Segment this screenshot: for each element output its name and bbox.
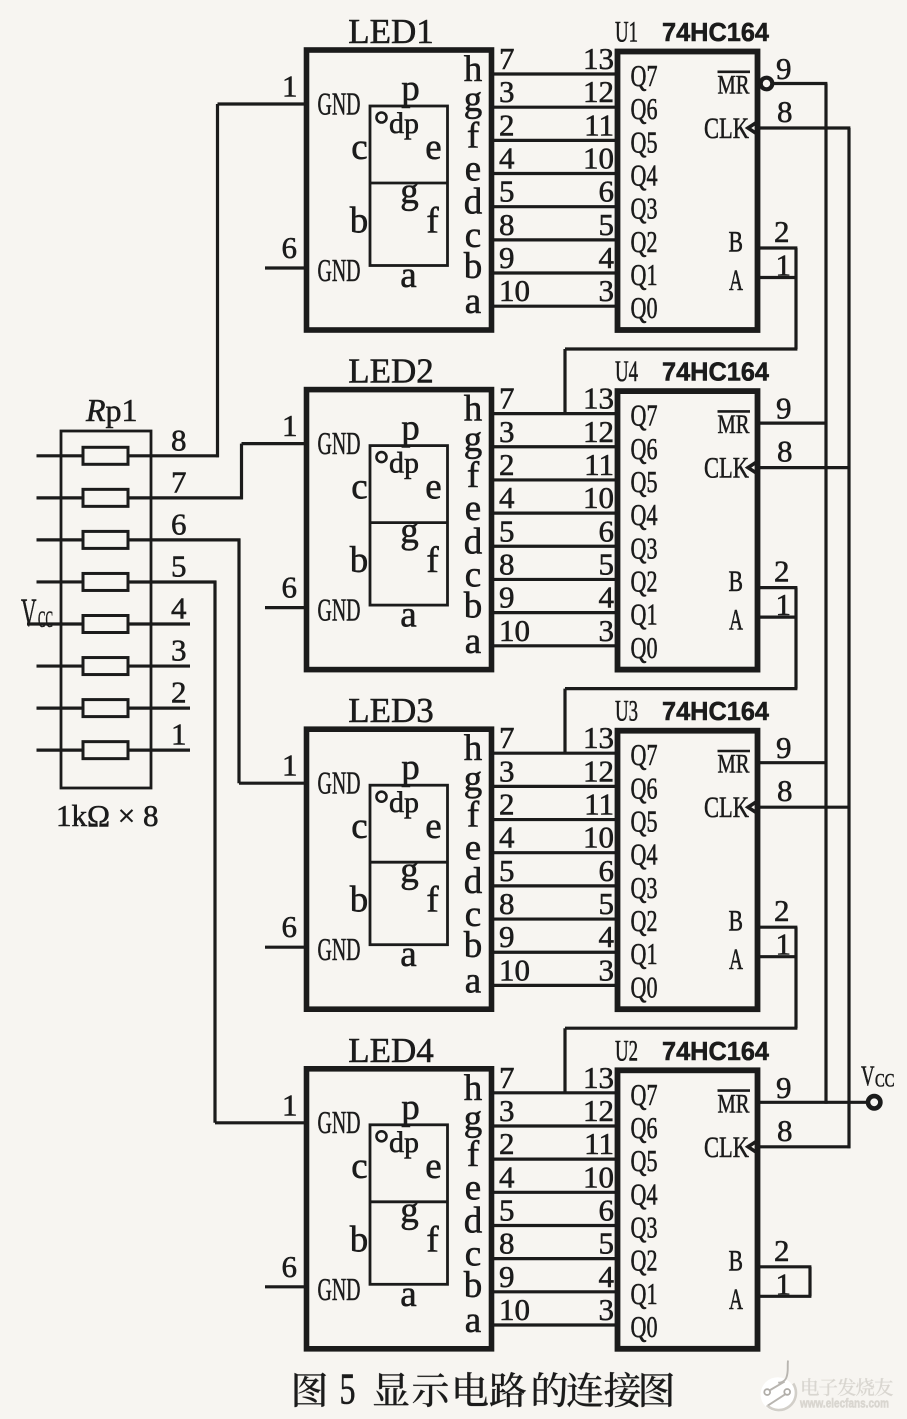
svg-text:g: g <box>400 171 419 212</box>
pin number 6 of LED3 <box>282 909 298 944</box>
svg-text:Q7: Q7 <box>631 398 658 433</box>
LED4 seven-segment glyph symbol <box>350 1087 448 1315</box>
svg-text:12: 12 <box>583 74 614 109</box>
U1 input labels B and A <box>729 227 744 298</box>
pin number 2 of U3 <box>774 893 790 928</box>
svg-text:MR: MR <box>718 1089 751 1118</box>
wire LED4 g (pin 3) to U2 Q6 (pin 12) <box>489 1093 620 1128</box>
svg-text:B: B <box>729 227 744 259</box>
svg-text:Q3: Q3 <box>631 1209 658 1244</box>
svg-text:12: 12 <box>583 753 614 788</box>
svg-text:3: 3 <box>599 952 615 987</box>
svg-text:Q3: Q3 <box>631 191 658 226</box>
svg-text:Q2: Q2 <box>631 224 658 259</box>
label U2 74HC164 <box>615 1034 770 1067</box>
U4 MR pin 9 wire to MR bus <box>758 422 828 425</box>
U2 A-B tie vertical <box>808 1267 811 1297</box>
svg-text:A: A <box>729 944 743 976</box>
svg-text:Q0: Q0 <box>631 630 658 665</box>
wire LED3 f (pin 2) to U3 Q5 (pin 11) <box>489 787 620 822</box>
U1 MR label (active-low overline) <box>718 71 751 100</box>
svg-text:1: 1 <box>282 408 298 443</box>
svg-text:11: 11 <box>584 787 614 822</box>
svg-text:a: a <box>465 621 481 662</box>
svg-text:7: 7 <box>171 464 187 499</box>
wire LED2 f (pin 2) to U4 Q5 (pin 11) <box>489 447 620 482</box>
svg-text:Rp1: Rp1 <box>85 392 138 428</box>
svg-text:GND: GND <box>318 1105 361 1140</box>
svg-text:a: a <box>465 960 481 1001</box>
wire LED1 b (pin 9) to U1 Q1 (pin 4) <box>489 240 620 275</box>
svg-text:g: g <box>464 758 483 799</box>
svg-text:b: b <box>350 540 369 581</box>
svg-text:10: 10 <box>583 141 614 176</box>
U1 A pin 1 wire <box>758 276 798 279</box>
wire LED4 f (pin 2) to U2 Q5 (pin 11) <box>489 1126 620 1161</box>
svg-text:5: 5 <box>499 513 515 548</box>
svg-text:Q4: Q4 <box>631 497 658 532</box>
svg-text:4: 4 <box>599 919 615 954</box>
pin number 9 of U4 <box>776 391 792 426</box>
svg-text:5: 5 <box>171 548 187 583</box>
svg-text:U4: U4 <box>615 355 638 388</box>
label LED1 <box>348 12 434 51</box>
U4 input labels B and A <box>729 566 744 637</box>
svg-text:MR: MR <box>718 410 751 439</box>
svg-text:GND: GND <box>318 932 361 967</box>
wire LED2 c (pin 8) to U4 Q2 (pin 5) <box>489 546 620 581</box>
svg-text:9: 9 <box>499 580 515 615</box>
svg-text:9: 9 <box>776 391 792 426</box>
svg-text:Q6: Q6 <box>631 770 658 805</box>
svg-text:6: 6 <box>171 506 187 541</box>
svg-text:a: a <box>465 1300 481 1341</box>
IC U2 74HC164 box <box>618 1070 758 1349</box>
LED3 pin 1 GND label <box>318 766 361 801</box>
svg-text:Q2: Q2 <box>631 563 658 598</box>
svg-text:9: 9 <box>499 240 515 275</box>
svg-text:g: g <box>400 1190 419 1231</box>
svg-text:Q4: Q4 <box>631 158 658 193</box>
wire LED3 h (pin 7) to U3 Q7 (pin 13) <box>489 720 620 755</box>
pin number 8 of U1 <box>777 94 793 129</box>
wire LED2 b (pin 9) to U4 Q1 (pin 4) <box>489 580 620 615</box>
svg-text:Q7: Q7 <box>631 58 658 93</box>
pin number 8 of U4 <box>777 434 793 469</box>
svg-text:8: 8 <box>499 886 515 921</box>
LED4 pin 1 GND label <box>318 1105 361 1140</box>
svg-text:Q7: Q7 <box>631 1077 658 1112</box>
cascade wire U4 A/B to U3 Q7 pin 13 <box>565 588 797 754</box>
LED2 pin 6 GND label <box>318 593 361 628</box>
svg-text:f: f <box>426 1219 439 1260</box>
resistor Rp1-6 (1k ohm) <box>37 531 129 548</box>
pin number 1 of LED1 <box>282 69 298 104</box>
LED2 pin 6 wire stub <box>265 606 307 609</box>
svg-text:B: B <box>729 1245 744 1277</box>
watermark elecfans logo <box>761 1361 796 1412</box>
svg-text:9: 9 <box>776 1070 792 1105</box>
svg-text:A: A <box>729 605 743 637</box>
U3 MR pin 9 wire to MR bus <box>758 761 828 764</box>
svg-text:5: 5 <box>599 546 615 581</box>
wire LED3 e (pin 4) to U3 Q4 (pin 10) <box>489 820 620 855</box>
U4 CLK edge arrow <box>748 461 758 473</box>
resistor Rp1-1 (1k ohm) <box>37 742 129 759</box>
svg-text:f: f <box>426 201 439 242</box>
wire LED4 h (pin 7) to U2 Q7 (pin 13) <box>489 1060 620 1095</box>
power Vcc label (left, Rp1 common) <box>21 590 53 635</box>
U2 B pin 2 wire <box>758 1265 812 1268</box>
resistor Rp1-8 (1k ohm) <box>37 447 129 464</box>
svg-text:Q0: Q0 <box>631 290 658 325</box>
pin number 8 of U2 <box>777 1113 793 1148</box>
svg-text:3: 3 <box>171 633 187 668</box>
svg-text:1kΩ × 8: 1kΩ × 8 <box>56 798 159 833</box>
CLK bus vertical wire <box>847 128 850 1148</box>
svg-text:7: 7 <box>499 381 515 416</box>
U3 A pin 1 wire <box>758 955 798 958</box>
Rp1 pin 2 stub wire <box>128 706 190 709</box>
svg-text:6: 6 <box>599 513 615 548</box>
svg-text:Q1: Q1 <box>631 1276 658 1311</box>
svg-text:13: 13 <box>583 381 614 416</box>
LED3 seven-segment glyph symbol <box>350 747 448 975</box>
svg-text:V: V <box>861 1061 875 1093</box>
svg-text:Q1: Q1 <box>631 257 658 292</box>
wire LED3 d (pin 5) to U3 Q3 (pin 6) <box>489 853 620 888</box>
svg-text:12: 12 <box>583 1093 614 1128</box>
svg-text:U2: U2 <box>615 1034 638 1067</box>
wire Rp1 pin 8 to LED1 pin 1 <box>128 104 307 457</box>
svg-text:V: V <box>21 590 37 635</box>
svg-text:3: 3 <box>499 1093 515 1128</box>
svg-text:dp: dp <box>389 786 419 819</box>
svg-text:Q5: Q5 <box>631 804 658 839</box>
svg-text:Q5: Q5 <box>631 1143 658 1178</box>
svg-text:10: 10 <box>583 820 614 855</box>
wire LED1 a (pin 10) to U1 Q0 (pin 3) <box>489 273 620 308</box>
svg-text:dp: dp <box>389 1126 419 1159</box>
wire LED2 h (pin 7) to U4 Q7 (pin 13) <box>489 381 620 416</box>
svg-text:4: 4 <box>171 591 187 626</box>
svg-text:p: p <box>401 747 420 788</box>
pin number 8 of U3 <box>777 773 793 808</box>
U2 CLK edge arrow <box>748 1141 758 1153</box>
wire LED3 c (pin 8) to U3 Q2 (pin 5) <box>489 886 620 921</box>
svg-text:LED1: LED1 <box>348 12 434 51</box>
svg-text:2: 2 <box>499 787 515 822</box>
svg-text:LED2: LED2 <box>348 352 434 391</box>
pin number 1 of U1 <box>776 248 792 283</box>
U3 CLK edge arrow <box>748 801 758 813</box>
svg-text:c: c <box>351 127 367 168</box>
svg-text:8: 8 <box>777 94 793 129</box>
svg-text:3: 3 <box>599 613 615 648</box>
svg-text:CLK: CLK <box>704 452 749 485</box>
pin number 1 of U4 <box>776 587 792 622</box>
svg-text:8: 8 <box>171 422 187 457</box>
svg-text:p: p <box>401 68 420 109</box>
LED3 pin 6 GND label <box>318 932 361 967</box>
svg-text:b: b <box>350 880 369 921</box>
svg-text:Q0: Q0 <box>631 1309 658 1344</box>
wire Rp1 pin 5 to LED4 pin 1 <box>128 581 307 1123</box>
pin number 1 of LED4 <box>282 1087 298 1122</box>
pin number 1 of LED3 <box>282 748 298 783</box>
wire Rp1 pin 6 to LED3 pin 1 <box>128 539 307 784</box>
svg-text:Q0: Q0 <box>631 969 658 1004</box>
svg-text:8: 8 <box>499 207 515 242</box>
U4 output labels Q7..Q0 <box>631 398 658 665</box>
Rp1 pin 3 stub wire <box>128 664 190 667</box>
svg-text:Q1: Q1 <box>631 936 658 971</box>
svg-text:1: 1 <box>171 717 187 752</box>
svg-text:2: 2 <box>774 554 790 589</box>
svg-text:p: p <box>401 1087 420 1128</box>
svg-text:74HC164: 74HC164 <box>662 1038 770 1066</box>
label U4 74HC164 <box>615 355 770 388</box>
resistor Rp1-7 (1k ohm) <box>37 489 129 506</box>
svg-text:10: 10 <box>583 480 614 515</box>
svg-text:3: 3 <box>499 74 515 109</box>
Rp1 pin 4 stub wire <box>128 622 190 625</box>
LED1 pin 6 GND label <box>318 253 361 288</box>
pin number 2 of U2 <box>774 1233 790 1268</box>
svg-text:f: f <box>426 880 439 921</box>
power Vcc terminal (right, to U2 MR) <box>861 1061 895 1109</box>
svg-text:8: 8 <box>499 546 515 581</box>
svg-text:74HC164: 74HC164 <box>662 19 770 47</box>
IC U1 74HC164 box <box>618 52 758 331</box>
svg-text:2: 2 <box>774 893 790 928</box>
LED4 pin 6 wire stub <box>265 1285 307 1288</box>
svg-text:6: 6 <box>599 1192 615 1227</box>
U4 CLK label <box>704 452 749 485</box>
U2 input labels B and A <box>729 1245 744 1316</box>
svg-text:13: 13 <box>583 1060 614 1095</box>
Rp1 pin number 4 <box>171 591 187 626</box>
svg-text:74HC164: 74HC164 <box>662 359 770 387</box>
IC U3 74HC164 box <box>618 731 758 1010</box>
label U3 74HC164 <box>615 695 770 728</box>
label LED3 <box>348 691 434 730</box>
resistor Rp1-2 (1k ohm) <box>37 700 129 717</box>
wire LED1 e (pin 4) to U1 Q4 (pin 10) <box>489 141 620 176</box>
LED1 pin 6 wire stub <box>265 266 307 269</box>
svg-text:GND: GND <box>318 766 361 801</box>
cascade wire U3 A/B to U2 Q7 pin 13 <box>565 927 797 1093</box>
svg-text:Q6: Q6 <box>631 91 658 126</box>
svg-text:dp: dp <box>389 107 419 140</box>
svg-text:b: b <box>350 201 369 242</box>
svg-text:5: 5 <box>599 207 615 242</box>
LED2 seven-segment glyph symbol <box>350 408 448 636</box>
svg-text:dp: dp <box>389 447 419 480</box>
U1 output labels Q7..Q0 <box>631 58 658 325</box>
svg-text:GND: GND <box>318 1272 361 1307</box>
svg-text:5: 5 <box>499 1192 515 1227</box>
wire LED2 d (pin 5) to U4 Q3 (pin 6) <box>489 513 620 548</box>
svg-text:3: 3 <box>499 753 515 788</box>
svg-text:MR: MR <box>718 750 751 779</box>
pin number 6 of LED4 <box>282 1249 298 1284</box>
svg-text:9: 9 <box>499 919 515 954</box>
svg-text:CLK: CLK <box>704 791 749 824</box>
svg-text:4: 4 <box>499 141 515 176</box>
svg-text:CC: CC <box>875 1071 895 1092</box>
svg-text:5: 5 <box>599 1226 615 1261</box>
svg-text:3: 3 <box>499 414 515 449</box>
wire LED4 a (pin 10) to U2 Q0 (pin 3) <box>489 1292 620 1327</box>
svg-text:10: 10 <box>499 613 530 648</box>
svg-text:e: e <box>425 806 441 847</box>
svg-text:6: 6 <box>282 1249 298 1284</box>
Rp1 pin number 6 <box>171 506 187 541</box>
svg-text:g: g <box>464 419 483 460</box>
LED2 segment pin names h g f e d c b a <box>464 389 483 662</box>
svg-text:6: 6 <box>282 570 298 605</box>
U4 CLK pin 8 wire to CLK bus <box>758 466 851 469</box>
svg-text:10: 10 <box>499 273 530 308</box>
svg-text:a: a <box>400 255 416 296</box>
U2 A pin 1 wire <box>758 1295 812 1298</box>
U2 MR label (active-low overline) <box>718 1089 751 1118</box>
pin number 1 of LED2 <box>282 408 298 443</box>
pin number 6 of LED1 <box>282 230 298 265</box>
U4 B pin 2 wire <box>758 586 798 589</box>
wire LED4 b (pin 9) to U2 Q1 (pin 4) <box>489 1259 620 1294</box>
wire LED4 c (pin 8) to U2 Q2 (pin 5) <box>489 1226 620 1261</box>
svg-text:9: 9 <box>776 51 792 86</box>
resistor Rp1-3 (1k ohm) <box>37 658 129 675</box>
svg-text:1: 1 <box>282 1087 298 1122</box>
svg-text:10: 10 <box>583 1159 614 1194</box>
wire Rp1 pin 7 to LED2 pin 1 <box>128 444 307 500</box>
U2 MR pin 9 wire to Vcc terminal <box>758 1101 867 1104</box>
svg-text:2: 2 <box>171 675 187 710</box>
label U1 74HC164 <box>615 16 770 49</box>
Rp1 pin 1 stub wire <box>128 749 190 752</box>
wire LED2 a (pin 10) to U4 Q0 (pin 3) <box>489 613 620 648</box>
7-segment display LED3 box <box>307 729 492 1009</box>
U2 CLK pin 8 wire to CLK bus <box>758 1145 851 1148</box>
pin number 6 of LED2 <box>282 570 298 605</box>
svg-text:5: 5 <box>340 1365 356 1414</box>
LED4 segment pin names h g f e d c b a <box>464 1068 483 1341</box>
svg-text:CLK: CLK <box>704 1131 749 1164</box>
wire LED1 f (pin 2) to U1 Q5 (pin 11) <box>489 107 620 142</box>
Rp1 pin number 1 <box>171 717 187 752</box>
svg-text:A: A <box>729 1284 743 1316</box>
svg-text:GND: GND <box>318 593 361 628</box>
svg-text:e: e <box>425 467 441 508</box>
svg-text:MR: MR <box>718 71 751 100</box>
svg-text:11: 11 <box>584 447 614 482</box>
U1 MR pin 9 wire to MR bus <box>774 82 828 85</box>
svg-text:1: 1 <box>282 748 298 783</box>
svg-text:Q6: Q6 <box>631 431 658 466</box>
svg-text:Q6: Q6 <box>631 1110 658 1145</box>
svg-text:Q1: Q1 <box>631 597 658 632</box>
svg-text:13: 13 <box>583 720 614 755</box>
svg-text:g: g <box>400 850 419 891</box>
svg-text:f: f <box>426 540 439 581</box>
resistor Rp1-4 (1k ohm) <box>27 616 128 633</box>
Rp1 pin number 2 <box>171 675 187 710</box>
svg-text:Q4: Q4 <box>631 837 658 872</box>
svg-text:6: 6 <box>282 909 298 944</box>
svg-text:e: e <box>425 127 441 168</box>
svg-text:b: b <box>350 1219 369 1260</box>
svg-text:Q2: Q2 <box>631 1243 658 1278</box>
wire LED3 a (pin 10) to U3 Q0 (pin 3) <box>489 952 620 987</box>
pin number 9 of U3 <box>776 730 792 765</box>
svg-text:4: 4 <box>499 1159 515 1194</box>
svg-text:GND: GND <box>318 426 361 461</box>
wire LED4 e (pin 4) to U2 Q4 (pin 10) <box>489 1159 620 1194</box>
svg-text:3: 3 <box>599 273 615 308</box>
wire LED1 h (pin 7) to U1 Q7 (pin 13) <box>489 41 620 76</box>
LED3 pin 6 wire stub <box>265 946 307 949</box>
svg-text:LED3: LED3 <box>348 691 434 730</box>
svg-text:4: 4 <box>499 820 515 855</box>
7-segment display LED4 box <box>307 1069 492 1349</box>
LED1 segment pin names h g f e d c b a <box>464 49 483 322</box>
watermark url www.elecfans.com <box>799 1397 889 1411</box>
svg-text:U1: U1 <box>615 16 638 49</box>
LED3 segment pin names h g f e d c b a <box>464 728 483 1001</box>
U1 MR pin 9 inversion bubble <box>761 78 773 90</box>
pin number 2 of U1 <box>774 214 790 249</box>
svg-text:4: 4 <box>499 480 515 515</box>
U1 B pin 2 wire <box>758 246 798 249</box>
svg-text:2: 2 <box>774 1233 790 1268</box>
wire LED2 e (pin 4) to U4 Q4 (pin 10) <box>489 480 620 515</box>
svg-text:6: 6 <box>599 174 615 209</box>
resistor Rp1-5 (1k ohm) <box>37 573 129 590</box>
svg-text:CLK: CLK <box>704 112 749 145</box>
U4 A pin 1 wire <box>758 615 798 618</box>
svg-text:GND: GND <box>318 253 361 288</box>
svg-text:5: 5 <box>599 886 615 921</box>
svg-text:LED4: LED4 <box>348 1031 434 1070</box>
svg-text:7: 7 <box>499 41 515 76</box>
IC U4 74HC164 box <box>618 391 758 669</box>
LED2 pin 1 GND label <box>318 426 361 461</box>
svg-text:2: 2 <box>499 107 515 142</box>
svg-text:8: 8 <box>777 434 793 469</box>
Rp1 pin number 7 <box>171 464 187 499</box>
wire LED1 d (pin 5) to U1 Q3 (pin 6) <box>489 174 620 209</box>
LED1 pin 1 GND label <box>318 86 361 121</box>
pin number 9 of U2 <box>776 1070 792 1105</box>
svg-text:Q5: Q5 <box>631 464 658 499</box>
U3 B pin 2 wire <box>758 926 798 929</box>
U4 MR label (active-low overline) <box>718 410 751 439</box>
wire LED3 g (pin 3) to U3 Q6 (pin 12) <box>489 753 620 788</box>
svg-text:Q3: Q3 <box>631 870 658 905</box>
svg-text:5: 5 <box>499 853 515 888</box>
svg-text:5: 5 <box>499 174 515 209</box>
svg-text:U3: U3 <box>615 695 638 728</box>
svg-text:B: B <box>729 906 744 938</box>
LED4 pin 6 GND label <box>318 1272 361 1307</box>
svg-text:4: 4 <box>599 1259 615 1294</box>
7-segment display LED1 box <box>307 50 492 330</box>
svg-text:8: 8 <box>499 1226 515 1261</box>
U1 CLK pin 8 wire to CLK bus <box>758 126 851 129</box>
